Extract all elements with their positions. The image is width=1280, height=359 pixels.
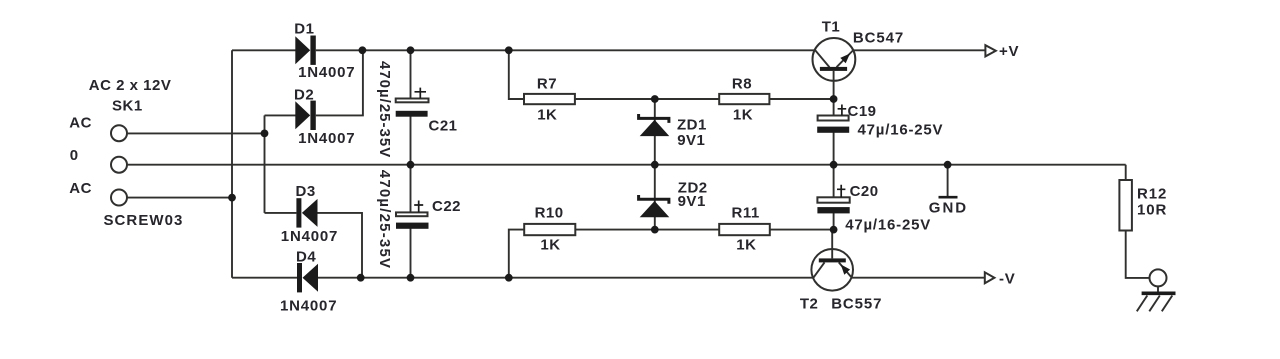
junction D1-D2 top rail [359,46,367,54]
svg-text:470µ/25-35V: 470µ/25-35V [376,170,393,269]
junction R10 bottom rail [505,274,513,282]
junction GND mid rail [944,161,952,169]
junction T2 base node [830,226,838,234]
svg-text:D3: D3 [296,183,316,200]
svg-text:D1: D1 [294,21,314,38]
plus sign C19 [838,105,847,116]
plus sign C22 [414,201,423,213]
resistor R8 [719,94,769,104]
resistor R10 [524,224,575,235]
junction C21 top [407,46,415,54]
svg-text:ZD1: ZD1 [677,116,707,133]
svg-text:47µ/16-25V: 47µ/16-25V [858,122,944,139]
terminal output circle [1150,269,1167,286]
wire AC top to vertical bus 2 [127,132,265,134]
svg-text:1K: 1K [733,107,753,124]
svg-text:R10: R10 [535,205,564,222]
wire D3 anode down to bottom rail [318,213,363,278]
wire row2 R11 to T2 base node [770,229,834,231]
svg-text:47µ/16-25V: 47µ/16-25V [845,216,931,233]
wire vertical bus 1 (D1 anode / D4 cathode) [231,50,233,277]
plus sign C21 [415,88,427,99]
svg-text:1N4007: 1N4007 [298,64,355,81]
wire D2 cathode up to top rail [316,50,363,115]
wire D1 anode lead [232,49,296,51]
svg-text:470µ/25-35V: 470µ/25-35V [376,61,393,158]
svg-text:T2: T2 [800,296,819,313]
capacitor C22 [410,165,412,213]
junction C22 bottom [407,274,415,282]
svg-text:10R: 10R [1137,202,1167,219]
svg-text:1N4007: 1N4007 [281,228,338,245]
ground GND [947,165,949,197]
svg-text:C21: C21 [429,118,458,135]
junction C21-C22 mid rail [407,161,415,169]
wire bottom raw rail [318,277,813,279]
svg-text:1N4007: 1N4007 [298,130,355,147]
resistor R12 [1119,180,1132,231]
svg-text:SK1: SK1 [112,97,143,114]
svg-text:C20: C20 [850,183,879,200]
wire T2 emitter to -V [852,277,985,279]
svg-text:C19: C19 [848,103,877,120]
wire R10 branch from bottom rail [509,230,524,278]
junction AC bottom / bus1 [228,194,236,202]
terminal SK1 pin 0 [111,157,127,173]
svg-text:BC557: BC557 [831,296,882,313]
zener ZD1 [639,114,669,123]
wire terminal to chassis [1157,286,1159,291]
wire AC bottom to vertical bus 1 [127,197,232,199]
svg-text:AC 2 x 12V: AC 2 x 12V [89,77,172,94]
diode D4 [297,263,302,292]
junction D4 bottom rail [357,274,365,282]
wire ZD2 vertical [654,165,656,230]
svg-text:1K: 1K [537,107,557,124]
zener ZD2 [639,195,669,204]
svg-text:AC: AC [69,114,92,131]
wire ZD1 vertical [654,99,656,165]
svg-text:1K: 1K [540,237,560,254]
svg-text:D4: D4 [296,249,316,266]
svg-text:R7: R7 [537,75,557,92]
diode D2 [295,101,310,129]
wire 0V mid rail [127,164,1126,166]
svg-text:BC547: BC547 [853,29,904,46]
plus sign C20 [837,185,845,197]
wire vertical bus 2 (D2 anode / D3 cathode) [264,115,266,212]
capacitor C19 [833,99,835,116]
svg-text:R12: R12 [1137,185,1167,202]
diode D3 [296,198,301,227]
wire top raw rail [316,49,816,51]
svg-text:-V: -V [999,271,1016,288]
output arrow -V [985,272,995,283]
junction ZD1-ZD2 mid rail [651,161,659,169]
junction R7 top rail [505,46,513,54]
output arrow +V [985,45,995,56]
junction T1 base node [830,95,838,103]
wire T1 emitter to +V [853,49,986,51]
svg-text:SCREW03: SCREW03 [104,212,184,229]
resistor R11 [719,224,770,235]
transistor T1 [813,38,856,81]
wire row1 R8 to T1 base node [769,98,833,100]
svg-text:1K: 1K [736,237,756,254]
diode D1 [295,36,310,64]
svg-text:+V: +V [999,43,1019,60]
terminal SK1 pin AC top [111,125,127,141]
capacitor C21 [410,50,412,99]
junction ZD1 row1 [651,95,659,103]
svg-text:D2: D2 [294,87,314,104]
wire D4 cathode lead [232,277,297,279]
svg-text:R8: R8 [732,75,752,92]
wire D2 anode lead [265,114,296,116]
wire R12 top lead [1125,165,1127,180]
svg-text:T1: T1 [822,19,841,36]
wire R12 bottom to output terminal [1126,231,1150,278]
svg-text:9V1: 9V1 [678,193,706,210]
junction ZD2 row2 [651,226,659,234]
wire row1 R7 to R8 [575,98,719,100]
svg-text:9V1: 9V1 [677,132,705,149]
svg-text:C22: C22 [432,198,461,215]
svg-text:1N4007: 1N4007 [280,298,337,315]
svg-text:0: 0 [70,147,79,164]
junction AC top / bus2 [261,130,269,138]
resistor R7 [524,94,575,104]
terminal SK1 pin AC bottom [111,190,127,206]
junction C19-C20 mid rail [830,161,838,169]
chassis ground [1142,291,1176,295]
wire row2 R10 to R11 [575,229,719,231]
wire D3 cathode lead [265,212,297,214]
transistor T2 [811,249,853,291]
svg-text:AC: AC [69,180,92,197]
svg-text:R11: R11 [732,205,760,222]
svg-text:GND: GND [929,200,968,217]
capacitor C20 [833,165,835,198]
wire R7 branch from top rail [509,50,524,99]
